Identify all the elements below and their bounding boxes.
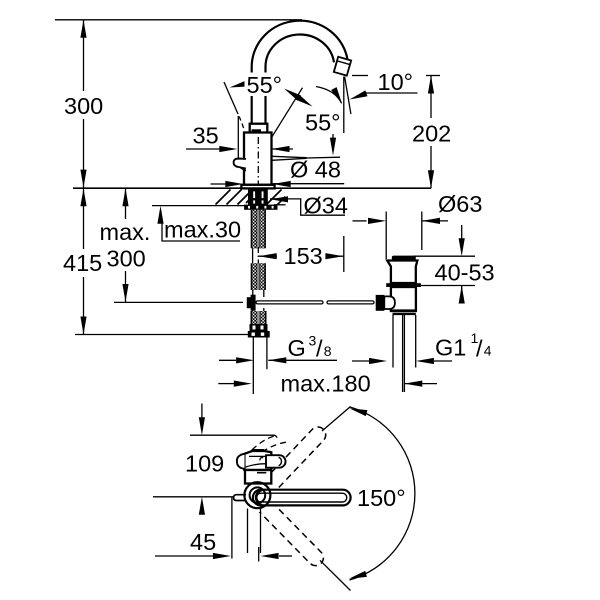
- hatch left of shank: [216, 190, 260, 205]
- dimension 202 line: [430, 76, 432, 189]
- body: [244, 133, 272, 185]
- svg-text:10°: 10°: [378, 69, 414, 95]
- dashed lever upper: [247, 424, 329, 569]
- svg-text:/: /: [476, 336, 483, 362]
- dimension G3/8: [219, 359, 236, 361]
- svg-text:max.180: max.180: [281, 371, 371, 397]
- diam63 extension lines: [386, 212, 422, 260]
- svg-text:150°: 150°: [357, 485, 406, 511]
- dimension max.180: [218, 383, 234, 385]
- stream 10deg tilted line: [345, 77, 351, 115]
- tailpipe: [393, 315, 416, 368]
- threaded shank lower block: [251, 263, 266, 290]
- top reference line (spout tip plane): [190, 435, 277, 437]
- 55deg #1: lever raised line: [224, 82, 244, 128]
- plan column below body: [245, 470, 271, 484]
- counter bottom line left: [152, 205, 247, 207]
- dimension 35: [186, 148, 220, 150]
- top extension line over spout: [55, 19, 302, 21]
- extension line for 35 at lever tip: [237, 116, 239, 158]
- plan cartridge cap bump: [250, 450, 267, 453]
- dimension 300 arrows: [80, 20, 86, 38]
- 55deg #2: lever up line: [272, 88, 303, 138]
- hose lines above tee: [253, 290, 264, 312]
- plan spout hidden dashes: [252, 436, 274, 450]
- hatch right of shank: [267, 190, 286, 205]
- counter line: [73, 187, 431, 189]
- drain: diam63 dimension: [353, 220, 367, 222]
- locknut under counter: [244, 205, 277, 210]
- gap centerline: [252, 248, 254, 263]
- svg-text:55°: 55°: [247, 72, 283, 98]
- plug rod inside tailpipe: [403, 315, 405, 392]
- tee fitting: [247, 297, 255, 308]
- 415 bottom reference line: [75, 334, 249, 336]
- side port black: [376, 295, 385, 311]
- 55deg #1 right arrow and 55deg#2 bowtie arrows: [282, 86, 301, 101]
- svg-text:45: 45: [190, 529, 216, 555]
- cap under spout: [250, 124, 268, 133]
- 55deg #2 arc to stream line: [316, 87, 342, 104]
- 55deg #1 left arrow: [229, 80, 248, 90]
- svg-text:Ø63: Ø63: [438, 191, 482, 217]
- side port white: [384, 296, 395, 309]
- label diam34 with leader: [270, 196, 288, 202]
- counter bottom line right: [274, 204, 286, 206]
- dimension diam48: [225, 181, 243, 187]
- dimension 40-53: [461, 225, 463, 241]
- pop-up flange: [387, 261, 417, 284]
- lever extension lines to arc: [320, 407, 351, 591]
- spout tube: [259, 28, 341, 131]
- base circle outer: [244, 482, 270, 508]
- center reference line: [153, 496, 238, 498]
- plan lever knob right: [266, 455, 286, 468]
- lines below circle: [248, 509, 261, 554]
- nozzle aerator: [334, 57, 351, 76]
- svg-text:G: G: [288, 335, 306, 361]
- dimension 153: [259, 255, 277, 257]
- svg-text:415: 415: [63, 250, 102, 276]
- svg-text:Ø 48: Ø 48: [290, 157, 341, 183]
- svg-text:G1: G1: [435, 335, 466, 361]
- hose connection nuts: [250, 324, 268, 331]
- lever down double line: [272, 156, 340, 160]
- dimension G1 1/4 arrows: [352, 360, 369, 362]
- dimension 109 upper arrow: [201, 404, 203, 419]
- plan body curve line: [244, 464, 271, 468]
- lever tab pointing left: [234, 159, 246, 169]
- 45 extension lines: [232, 497, 259, 562]
- svg-text:35: 35: [193, 123, 219, 149]
- svg-text:109: 109: [185, 451, 224, 477]
- base plinth: [241, 185, 274, 189]
- rotation arc 150deg: [350, 407, 415, 580]
- 10deg lower line: [363, 92, 418, 94]
- dimension 45: [155, 555, 213, 557]
- spout tip tab: [234, 495, 246, 501]
- plan body box: [244, 451, 271, 470]
- label 55deg #1: [245, 73, 289, 97]
- svg-text:300: 300: [64, 93, 103, 119]
- svg-text:55°: 55°: [305, 110, 341, 136]
- dimension 109 lower arrow: [199, 497, 205, 515]
- body centerline: [257, 137, 259, 185]
- threaded shank upper block: [251, 210, 266, 249]
- black shank through counter: [248, 189, 268, 206]
- pop-up body: [391, 287, 416, 311]
- 55deg #2 lower arrow pointing down: [332, 134, 334, 141]
- pop-up body bottom bands: [393, 311, 416, 314]
- pop-up rod left segment: [256, 301, 323, 304]
- 10deg extension line at nozzle level: [352, 75, 368, 77]
- dimension max.300 line: [125, 188, 127, 302]
- svg-text:40-53: 40-53: [435, 260, 495, 286]
- stream vertical extension line: [343, 77, 345, 273]
- 40-53 reference lines: [413, 256, 475, 285]
- dimension 415 line: [83, 188, 85, 334]
- base circle inner: [250, 487, 266, 503]
- dashed lever lower: [247, 488, 327, 569]
- svg-text:202: 202: [412, 121, 451, 147]
- pop-up rod right segment: [327, 301, 374, 304]
- under-cap dark band: [252, 129, 262, 133]
- svg-text:153: 153: [284, 243, 323, 269]
- threaded block below tee: [251, 311, 267, 324]
- svg-text:max.30: max.30: [164, 217, 241, 243]
- dimension 300 line: [83, 20, 85, 188]
- svg-text:Ø34: Ø34: [304, 193, 348, 219]
- arc arrowheads: [348, 405, 367, 416]
- svg-text:8: 8: [324, 343, 332, 359]
- svg-text:max.: max.: [100, 219, 151, 245]
- svg-text:/: /: [316, 336, 323, 362]
- dimension max.30 arrow: [160, 210, 162, 222]
- pop-up waste plug cap: [392, 256, 416, 261]
- hoses: [253, 338, 267, 395]
- svg-text:300: 300: [107, 246, 146, 272]
- max300 bottom reference line / rod extension: [114, 301, 243, 303]
- o-ring band: [386, 283, 421, 287]
- svg-text:4: 4: [484, 343, 492, 359]
- 202 top tick: [426, 75, 440, 77]
- lever pill solid: [253, 490, 351, 506]
- plan spout end-on bulge: [237, 454, 245, 469]
